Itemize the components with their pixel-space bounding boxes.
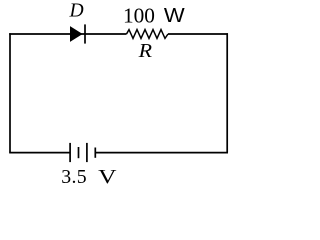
- wire: top side, right segment (resistor to corner): [168, 33, 228, 35]
- resistor R: zigzag element: [127, 30, 169, 39]
- battery cell 2: long plate (positive): [86, 143, 88, 162]
- svg-text:V: V: [98, 166, 117, 188]
- svg-text:100: 100: [123, 4, 155, 28]
- svg-text:3.5: 3.5: [61, 166, 87, 188]
- wire: right side vertical: [226, 33, 228, 152]
- wire: top side, left segment (corner to resistor): [9, 33, 126, 35]
- svg-text:D: D: [69, 1, 84, 22]
- wire: bottom side, left segment (corner to battery): [9, 152, 70, 154]
- svg-text:W: W: [164, 5, 186, 27]
- battery cell 1: long plate (positive): [69, 143, 71, 162]
- svg-text:R: R: [137, 40, 152, 62]
- diode D: cathode bar: [84, 24, 86, 43]
- wire: bottom side, right segment (battery to corner): [95, 152, 228, 154]
- battery cell 2: short plate (negative): [94, 148, 96, 158]
- battery cell 1: short plate (negative): [78, 147, 80, 158]
- diode D: anode triangle: [70, 26, 83, 42]
- wire: left side vertical: [9, 33, 11, 152]
